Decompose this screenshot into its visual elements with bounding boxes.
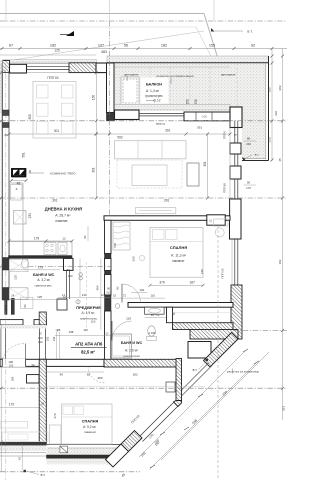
svg-text:ф.12: ф.12 <box>153 99 160 103</box>
bath1 right wall lower post <box>57 299 67 310</box>
terrace right edge double line <box>268 56 270 161</box>
svg-text:-0.30: -0.30 <box>201 116 207 119</box>
svg-text:A: 3,2 м²: A: 3,2 м² <box>37 278 51 282</box>
svg-text:ламинат: ламинат <box>172 259 185 263</box>
svg-text:202: 202 <box>133 373 138 377</box>
inner wall segment B <box>105 259 112 271</box>
svg-text:⌀ 180: ⌀ 180 <box>148 331 156 335</box>
svg-text:АП2 АП4 АП6: АП2 АП4 АП6 <box>75 342 103 347</box>
chimney leader line <box>28 172 44 174</box>
svg-text:82: 82 <box>83 235 87 239</box>
bath1 dim 179 row <box>9 269 60 271</box>
svg-text:100: 100 <box>38 336 43 340</box>
svg-text:30: 30 <box>28 170 32 174</box>
diagonal hatched band lower <box>121 431 142 452</box>
top-left corner hatch block <box>3 61 10 73</box>
grid vertical x214 top <box>213 0 215 21</box>
living room east edge line <box>229 121 231 215</box>
neighbor furniture bottom left <box>0 422 28 429</box>
top dimension line y48.5 <box>0 48 287 50</box>
svg-text:гранитогрес: гранитогрес <box>145 94 163 98</box>
sw bedroom south wall dark band <box>47 455 121 458</box>
svg-text:135: 135 <box>37 295 42 299</box>
dim 301 vertical sofa zone <box>207 134 209 198</box>
svg-text:64 : 12: 64 : 12 <box>151 313 160 317</box>
svg-text:363: 363 <box>282 406 286 411</box>
bedroom dim row 3 <box>110 297 165 299</box>
bed <box>150 228 203 278</box>
sw bedroom south wall inner line <box>46 444 122 446</box>
bath1 washing machine <box>9 288 28 300</box>
svg-text:182: 182 <box>50 44 56 48</box>
bedroom door leaf <box>121 284 123 303</box>
terrace joint dash x237 <box>236 63 238 110</box>
sofa <box>115 141 186 159</box>
svg-text:цветарник: цветарник <box>124 72 139 76</box>
inner wall dark seg kitchen <box>105 254 112 259</box>
svg-text:ППП 0: ППП 0 <box>156 122 166 126</box>
entry dim line <box>0 366 39 368</box>
diag dim ticks <box>150 349 259 468</box>
svg-text:454: 454 <box>96 285 100 290</box>
svg-text:37: 37 <box>234 133 238 137</box>
svg-text:188: 188 <box>69 330 74 334</box>
entry door opening gap <box>3 359 26 367</box>
svg-text:192: 192 <box>139 288 144 292</box>
corridor bottom wall step 2 hatched <box>190 330 238 340</box>
chimney dim 48 <box>11 180 26 182</box>
svg-text:12: 12 <box>209 219 213 223</box>
svg-text:96: 96 <box>60 373 64 377</box>
east wall tall post <box>230 199 242 239</box>
svg-text:26: 26 <box>5 294 8 298</box>
floor-above projection line 2 <box>0 26 196 28</box>
bath1 shower box dashed <box>9 259 28 272</box>
svg-text:60: 60 <box>172 312 176 316</box>
diag dim line 2 <box>150 362 258 470</box>
entry door dashed arc <box>3 343 26 359</box>
sw dim row 96 82 <box>46 371 104 373</box>
svg-text:12: 12 <box>105 331 109 335</box>
inner wall dark seg B2 <box>105 271 112 275</box>
bath2 toilet <box>148 326 156 336</box>
svg-text:24: 24 <box>11 294 14 298</box>
svg-text:90: 90 <box>247 137 251 141</box>
neighbor stipple band <box>0 446 46 451</box>
east wall window run 4 <box>234 239 236 285</box>
terrace inner top boundary line <box>114 66 230 68</box>
terrace parapet inner dark line <box>107 62 269 64</box>
svg-text:279: 279 <box>53 413 57 418</box>
terrace stippled floor slab <box>114 63 266 159</box>
entry jamb stub below <box>27 375 40 383</box>
kitchen tall counter <box>10 183 24 255</box>
inner wall segment A <box>105 220 112 253</box>
svg-text:110: 110 <box>13 275 17 280</box>
left wall outer stipple strip <box>0 60 3 113</box>
svg-text:A: 2,9 м²: A: 2,9 м² <box>125 349 139 353</box>
window south x139-184 <box>139 112 184 114</box>
dining chairs <box>37 85 49 98</box>
svg-text:90: 90 <box>23 304 27 308</box>
axis vertical x5.8 lower <box>5 300 7 480</box>
svg-text:150: 150 <box>268 87 272 92</box>
neighbor south wall dark line <box>0 442 46 445</box>
inner wall dark seg D <box>105 295 112 311</box>
left edge wall below bath1 <box>0 325 6 359</box>
armchair <box>187 163 199 186</box>
svg-text:12: 12 <box>62 236 66 240</box>
street slope line <box>0 31 204 62</box>
svg-text:170: 170 <box>246 186 251 190</box>
svg-text:A: 11,3 м²: A: 11,3 м² <box>171 253 187 257</box>
svg-text:102: 102 <box>9 364 14 368</box>
diagonal window run <box>143 406 179 442</box>
left wall junction block 2 <box>3 123 10 128</box>
east wall hatched lower <box>231 285 242 339</box>
svg-text:72: 72 <box>123 293 127 297</box>
wall post south of balcony <box>115 110 140 120</box>
left edge dimension chain <box>0 63 2 300</box>
east wall window run 3 <box>234 179 236 199</box>
axis line A horizontal dash-dot y21 <box>0 20 287 22</box>
vestibule dim row y335 <box>55 334 110 336</box>
terrace parapet stipple band top <box>107 56 269 63</box>
shower square bath1 lower <box>21 297 33 308</box>
svg-text:60: 60 <box>67 268 71 272</box>
right dim col 2 <box>282 49 284 421</box>
diag dim line 3 <box>161 352 269 460</box>
svg-text:ламинат: ламинат <box>55 219 68 223</box>
svg-text:45: 45 <box>278 158 282 162</box>
v.t. marker top right <box>211 28 215 32</box>
svg-text:230: 230 <box>194 99 198 105</box>
floor-above projection line 1 <box>0 13 204 15</box>
right dim col 1 <box>271 49 273 162</box>
top-left corner post <box>10 64 27 73</box>
svg-text:ПРЕДВЕРИЕ: ПРЕДВЕРИЕ <box>76 305 101 310</box>
svg-text:БАНЯ И WC: БАНЯ И WC <box>33 273 55 277</box>
tv console <box>135 208 175 214</box>
sw bed pillows <box>63 406 73 415</box>
svg-text:110: 110 <box>91 320 96 324</box>
sw wall upper white cavity <box>40 325 46 359</box>
top wall hatched pier <box>69 63 96 73</box>
svg-text:в.т.: в.т. <box>193 368 198 372</box>
bottom dash-dot <box>0 471 140 473</box>
svg-text:12: 12 <box>62 293 66 297</box>
nightstand circle right <box>215 228 224 237</box>
svg-text:300: 300 <box>28 114 32 120</box>
divider wall <box>104 216 230 221</box>
svg-text:210: 210 <box>106 290 111 294</box>
grid vertical x6 top <box>5 0 7 22</box>
svg-text:391: 391 <box>197 126 202 130</box>
kitchen sink top <box>11 185 23 201</box>
kitchen bottom counter <box>10 242 73 256</box>
diag dim line 1 <box>139 351 246 458</box>
svg-text:118: 118 <box>126 316 131 320</box>
bedroom top wall band <box>184 112 230 121</box>
vt east arrow <box>242 157 246 161</box>
svg-text:340: 340 <box>200 269 204 274</box>
east wall window run 2 <box>234 154 236 166</box>
dining table <box>33 82 76 139</box>
bedroom bottom wall <box>128 303 233 308</box>
secondary dim line left y55 <box>0 54 96 56</box>
svg-text:182: 182 <box>278 259 282 264</box>
svg-text:90: 90 <box>107 287 110 291</box>
inner wall segment E <box>105 311 112 360</box>
roof edge diagonal pair <box>204 14 219 63</box>
svg-text:СПАЛНЯ: СПАЛНЯ <box>170 245 187 250</box>
svg-text:КОМИННО ТЯЛО: КОМИННО ТЯЛО <box>50 172 76 176</box>
svg-text:110: 110 <box>83 328 88 332</box>
circle symbol vestibule <box>76 300 80 304</box>
left wall dark block bath bottom <box>3 288 10 301</box>
svg-text:160: 160 <box>10 376 14 381</box>
vestibule vertical dim lines <box>79 259 81 298</box>
circle symbols pair <box>79 273 83 277</box>
svg-text:179: 179 <box>38 265 43 269</box>
east wall post w2 <box>230 166 241 179</box>
sw bedroom west wall hatched <box>39 359 46 444</box>
svg-text:25: 25 <box>4 133 8 137</box>
stipple band below bath1 wall <box>0 325 46 329</box>
balcony planter white box <box>121 77 139 105</box>
wall miter bottom <box>174 401 182 407</box>
top wall window quadruple line <box>27 65 70 67</box>
svg-text:592: 592 <box>117 135 123 139</box>
left edge dimension chain lower <box>0 325 2 472</box>
svg-text:10: 10 <box>113 293 117 297</box>
svg-text:67: 67 <box>9 44 13 48</box>
svg-text:168: 168 <box>113 243 117 248</box>
balcony south stipple band <box>115 104 231 110</box>
sw south stipple band <box>46 459 115 465</box>
top wall outer stipple strip <box>3 60 97 63</box>
balcony left wall <box>107 63 115 113</box>
sink 2 <box>58 243 67 255</box>
axis horizontal y120.8 <box>0 120 287 122</box>
svg-text:28: 28 <box>41 402 45 406</box>
svg-text:153: 153 <box>209 44 215 48</box>
svg-text:170: 170 <box>9 402 15 406</box>
svg-text:150: 150 <box>186 99 190 105</box>
bedroom NE corner post <box>230 107 242 128</box>
svg-text:ДНЕВНА И КУХНЯ: ДНЕВНА И КУХНЯ <box>45 207 82 212</box>
svg-text:561: 561 <box>21 152 25 158</box>
svg-text:90: 90 <box>247 181 251 185</box>
bath2 door arc <box>112 321 132 341</box>
rug dashed <box>117 160 182 188</box>
kitchen dim row 179 12 <box>9 240 72 242</box>
AP underline <box>71 347 107 349</box>
chimney black symbol <box>11 168 26 177</box>
svg-text:187: 187 <box>190 281 196 285</box>
entry door leaf <box>25 344 27 367</box>
vt marker mid right <box>206 359 208 361</box>
svg-text:92: 92 <box>251 44 255 48</box>
bedroom dim row 1 <box>150 284 203 286</box>
bath2 dim 64 12 <box>145 317 166 319</box>
svg-text:ППП 60: ППП 60 <box>223 183 227 193</box>
svg-text:82: 82 <box>116 286 120 290</box>
nightstand rect <box>214 219 229 226</box>
dim vertical x96.3 <box>95 73 97 198</box>
svg-text:43: 43 <box>17 457 21 461</box>
top wall post right <box>96 63 107 73</box>
left wall center dash-dot <box>5 63 7 300</box>
axis horizontal y198 <box>0 197 287 199</box>
svg-text:260: 260 <box>132 256 136 261</box>
svg-text:34: 34 <box>31 363 35 367</box>
slope arrow black <box>60 34 74 36</box>
svg-text:130: 130 <box>268 137 272 142</box>
svg-text:82: 82 <box>87 373 91 377</box>
sw room top line <box>46 386 205 388</box>
kitchen wall end post <box>64 258 74 270</box>
svg-text:380: 380 <box>97 376 102 380</box>
coffee table <box>132 165 167 186</box>
svg-text:ламинат: ламинат <box>84 430 97 434</box>
svg-text:решетка за климатици: решетка за климатици <box>227 369 260 373</box>
svg-text:330: 330 <box>274 111 278 116</box>
bath1 dim 135 row <box>9 299 66 301</box>
corridor bottom wall hatched <box>173 323 234 330</box>
fridge x-box <box>14 211 27 225</box>
spot level marker square <box>60 446 68 453</box>
bath2 south wall hatched <box>104 359 179 367</box>
svg-text:в.т.: в.т. <box>41 473 46 477</box>
axis horizontal y388 full <box>0 387 287 389</box>
svg-text:78: 78 <box>55 328 58 332</box>
white pilaster left of SE wall <box>166 382 175 392</box>
svg-text:гранитогрес: гранитогрес <box>35 283 53 287</box>
svg-text:48: 48 <box>17 181 21 185</box>
vestibule south wall <box>0 359 104 366</box>
terrace bottom edge double line <box>242 160 269 162</box>
axis vertical dashed x218 <box>217 225 219 480</box>
door frame lines right of entry <box>56 332 58 359</box>
left exterior wall body <box>3 73 10 300</box>
svg-text:230: 230 <box>246 142 251 146</box>
svg-text:СПАЛНЯ: СПАЛНЯ <box>82 419 99 423</box>
bath1 south wall right part <box>34 320 46 325</box>
planter inner dashed <box>123 79 137 103</box>
bath2 right wall <box>167 307 173 323</box>
svg-text:379: 379 <box>159 281 165 285</box>
svg-text:301: 301 <box>54 129 60 133</box>
svg-text:125: 125 <box>54 49 60 53</box>
svg-text:391: 391 <box>165 129 171 133</box>
svg-text:107: 107 <box>98 44 104 48</box>
stove circles <box>44 243 56 255</box>
diagonal end post <box>106 444 129 467</box>
svg-text:301: 301 <box>92 167 96 173</box>
bath2 vanity below wall <box>145 307 165 314</box>
svg-text:решетка за климатизация: решетка за климатизация <box>156 74 193 78</box>
svg-text:ППП 60: ППП 60 <box>220 268 224 278</box>
bath1 south wall corner block <box>39 312 46 325</box>
svg-text:ППП 60: ППП 60 <box>47 76 59 80</box>
corridor light line <box>173 311 234 313</box>
balcony SW corner dark post <box>107 113 115 121</box>
left wall junction block 1 <box>3 110 10 116</box>
left wall dark block bath top <box>3 258 10 271</box>
svg-text:в.т.: в.т. <box>255 153 260 157</box>
bath1 south wall left part <box>0 320 23 325</box>
svg-text:82,5 м²: 82,5 м² <box>81 350 95 355</box>
sw bed line <box>62 416 113 418</box>
left shaft stub 1 <box>4 298 7 315</box>
svg-text:179: 179 <box>34 236 40 240</box>
svg-text:182: 182 <box>161 44 167 48</box>
axis horizontal y266 partial <box>28 265 111 267</box>
grid vertical x109 top <box>109 0 111 21</box>
svg-text:391: 391 <box>164 199 170 203</box>
svg-text:302: 302 <box>278 85 282 90</box>
sw south wall inner stipple <box>47 449 120 456</box>
svg-text:140: 140 <box>52 336 56 341</box>
svg-text:БАЛКОН: БАЛКОН <box>146 83 162 87</box>
balcony joint dashes <box>149 67 151 104</box>
SE shaft white post <box>188 342 211 359</box>
left shaft stub 2 <box>11 298 15 315</box>
diagonal hatched band upper <box>204 333 239 368</box>
svg-text:ППП 0: ППП 0 <box>223 130 227 139</box>
bath2 shower <box>111 334 132 358</box>
sw dresser <box>49 425 61 444</box>
bath1 toilet <box>22 259 29 268</box>
svg-text:301: 301 <box>52 199 58 203</box>
svg-text:231: 231 <box>28 213 32 219</box>
vestibule dim row y297.6 <box>58 297 110 299</box>
svg-text:56: 56 <box>124 44 128 48</box>
svg-text:в.т.: в.т. <box>247 30 252 34</box>
east wall post w1 <box>230 143 241 154</box>
bed pillows <box>153 230 165 240</box>
svg-text:цветарник: цветарник <box>221 72 236 76</box>
bath2 door leaf <box>111 321 113 341</box>
dim row y134 <box>9 133 230 135</box>
divider wall thick post right <box>207 215 225 225</box>
svg-text:483: 483 <box>101 50 107 54</box>
svg-text:210: 210 <box>68 274 73 278</box>
lamp circle left <box>139 255 144 260</box>
circle symbol bedroom door <box>115 304 120 309</box>
neighbor thin lines <box>0 452 46 454</box>
svg-text:301: 301 <box>203 161 207 167</box>
svg-text:102: 102 <box>46 336 50 341</box>
svg-text:25: 25 <box>39 332 42 336</box>
svg-text:110: 110 <box>151 293 156 297</box>
svg-text:A: 28,7 м²: A: 28,7 м² <box>55 213 71 217</box>
bedroom wardrobe <box>113 222 130 250</box>
svg-text:150: 150 <box>91 95 95 101</box>
vertical wall SE of bath2 hatched <box>176 359 182 401</box>
diagonal louvre thin lines <box>181 366 213 398</box>
svg-text:A: 1,4 м²: A: 1,4 м² <box>146 89 160 93</box>
sw bed <box>62 404 113 444</box>
svg-text:A: 4,9 м²: A: 4,9 м² <box>82 311 96 315</box>
axis vertical x109.5 <box>109 21 111 216</box>
bedroom door arc <box>122 284 141 303</box>
sw bedroom door arc dashed <box>88 366 105 383</box>
axis horizontal y330 right <box>233 330 287 332</box>
svg-text:210: 210 <box>38 340 43 344</box>
svg-text:198: 198 <box>8 360 13 364</box>
